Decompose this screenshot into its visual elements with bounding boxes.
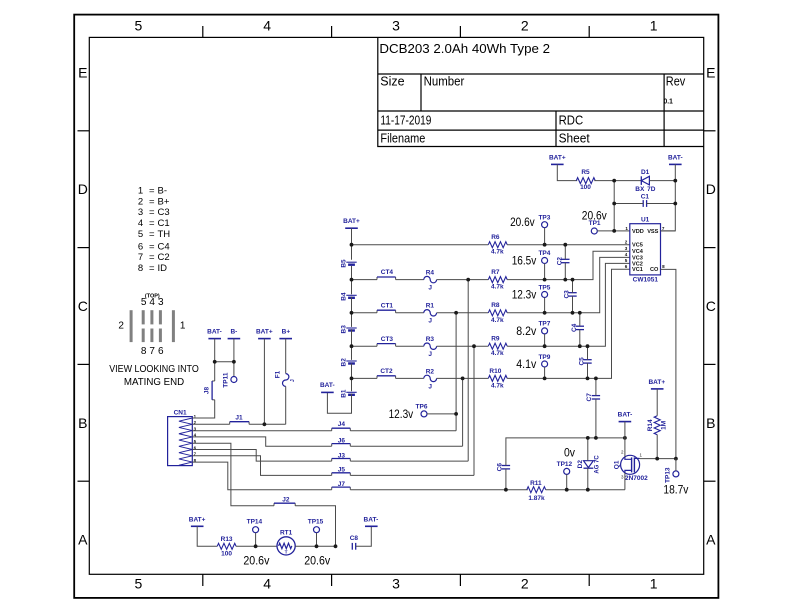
jumper J7	[332, 481, 351, 490]
wire J6 to 4.1v vertical	[350, 445, 462, 447]
test point TP11	[223, 372, 237, 388]
power flag BAT+ battery top	[343, 218, 360, 228]
wire BAT+ to R5	[557, 164, 577, 180]
jumper J1	[230, 415, 249, 425]
svg-text:=: =	[149, 263, 155, 274]
resistor R5 100	[576, 169, 595, 191]
wire C4 top	[579, 313, 581, 326]
svg-text:R8: R8	[491, 302, 500, 309]
svg-text:0.1: 0.1	[664, 99, 673, 106]
wire rail 8.2v to U1 VC2 pin 5	[507, 263, 630, 346]
test point TP12 0v	[557, 447, 576, 474]
svg-text:4: 4	[263, 18, 271, 34]
test point TP14 20.6v	[243, 519, 269, 568]
svg-text:100: 100	[580, 184, 591, 191]
wire CO pin 8 to Q1 gate node	[661, 269, 676, 458]
svg-text:4: 4	[138, 218, 143, 229]
resistor R11 1.87k	[527, 480, 546, 502]
wire rail 4.1v to U1 VC1 pin 6	[507, 269, 630, 378]
svg-text:TP9: TP9	[538, 354, 550, 361]
wire F1 to pin2 wire	[285, 386, 287, 424]
wire C2 bottom	[564, 263, 566, 280]
svg-text:Size: Size	[380, 75, 404, 89]
resistor R13 100	[217, 536, 236, 558]
wire J1 to B+ corner	[249, 423, 286, 425]
wire R5 to D1 node	[594, 180, 641, 182]
capacitor C6	[497, 463, 510, 472]
svg-text:TP3: TP3	[538, 215, 550, 222]
wire CN1 pin 7 to J5	[192, 456, 331, 476]
thermistor RT1	[277, 529, 295, 555]
svg-text:TP11: TP11	[223, 372, 230, 388]
svg-text:C2: C2	[158, 252, 170, 263]
test point TP15 20.6v	[304, 519, 330, 568]
svg-text:=: =	[149, 207, 155, 218]
test point TP5 12.3v	[512, 284, 551, 301]
svg-text:C4: C4	[571, 323, 578, 332]
wire C5 top	[587, 346, 589, 360]
wire D2 bottom	[587, 468, 589, 490]
svg-text:F1: F1	[275, 370, 282, 378]
svg-text:20.6v: 20.6v	[510, 217, 535, 229]
op-amp U1 CW1051 protection IC	[630, 217, 661, 284]
svg-text:5: 5	[138, 229, 143, 240]
wire B- stem to TP11	[233, 339, 235, 377]
svg-text:U1: U1	[641, 217, 650, 224]
svg-text:1: 1	[180, 321, 186, 332]
svg-text:=: =	[149, 218, 155, 229]
wire Q1 drain lead	[624, 438, 626, 457]
svg-text:J: J	[428, 383, 432, 390]
svg-text:TP6: TP6	[416, 403, 428, 410]
wire rail 12.3v to U1 VC3 pin 4	[507, 257, 630, 312]
svg-text:R5: R5	[581, 169, 590, 176]
power flag BAT+ at R14	[648, 379, 665, 389]
wire C4 bottom	[579, 330, 581, 347]
svg-text:E: E	[78, 65, 87, 81]
wire CT4 to R4	[396, 279, 424, 281]
wire VSS pin 7 stub	[661, 230, 676, 232]
svg-text:R14: R14	[647, 419, 654, 431]
svg-text:Sheet: Sheet	[559, 132, 591, 146]
wire 8.2v tap vertical to J5	[473, 346, 475, 475]
svg-text:CO: CO	[650, 267, 659, 273]
svg-text:RT1: RT1	[280, 529, 293, 536]
wire RT1 to TP15	[295, 545, 335, 547]
wire CN1 pin 4 to J6	[192, 437, 331, 446]
wire D1 to BAT- vertical	[649, 180, 675, 182]
svg-text:MATING END: MATING END	[124, 376, 185, 388]
svg-text:20.6v: 20.6v	[243, 556, 269, 568]
border zone labels	[78, 18, 716, 592]
jumper J8	[203, 381, 214, 400]
svg-text:1: 1	[650, 18, 658, 34]
capacitor C3	[564, 290, 577, 299]
wire C3 top	[572, 280, 574, 293]
svg-text:VC5: VC5	[632, 243, 643, 249]
wire J2 to RT1 node	[295, 506, 335, 547]
svg-text:BAT+: BAT+	[256, 329, 273, 336]
svg-text:VDD: VDD	[632, 229, 644, 235]
svg-text:2: 2	[521, 18, 529, 34]
wire BAT- flag to drain node	[624, 422, 626, 438]
junction dots rail taps	[350, 243, 598, 416]
resistor R7 4.7k	[488, 269, 507, 291]
svg-text:1: 1	[650, 576, 658, 592]
svg-text:C2: C2	[557, 257, 564, 266]
svg-text:B3: B3	[340, 325, 347, 334]
wire CT2 to R2	[396, 377, 424, 379]
wire TP4 stub	[544, 264, 546, 280]
wire rail 12.3v left	[352, 312, 378, 314]
wire rail 8.2v left	[352, 345, 378, 347]
jumper J3	[332, 452, 351, 461]
test point TP9 4.1v	[516, 354, 550, 371]
wire C5 bottom	[587, 363, 589, 378]
svg-text:=: =	[149, 229, 155, 240]
svg-text:12.3v: 12.3v	[512, 290, 537, 302]
svg-text:J3: J3	[338, 452, 346, 459]
svg-text:4.7k: 4.7k	[491, 317, 504, 324]
svg-text:J: J	[428, 285, 432, 292]
svg-text:1M: 1M	[660, 421, 667, 430]
svg-text:B: B	[706, 415, 715, 431]
test point TP7 8.2v	[516, 321, 550, 338]
svg-text:4.7k: 4.7k	[491, 382, 504, 389]
svg-text:BAT-: BAT-	[618, 411, 633, 418]
svg-text:TP12: TP12	[557, 461, 573, 468]
svg-text:12.3v: 12.3v	[389, 409, 414, 421]
svg-text:TP4: TP4	[538, 250, 550, 257]
svg-text:5: 5	[141, 297, 147, 308]
wire R2 to R10	[437, 377, 489, 379]
svg-text:7: 7	[662, 226, 665, 231]
svg-text:BAT-: BAT-	[364, 516, 379, 523]
connector CN1	[168, 410, 197, 466]
resistor R9 4.7k	[488, 336, 507, 358]
wire R13 to RT1	[236, 545, 277, 547]
battery cell B4	[340, 292, 356, 301]
wire TP9 stub	[544, 367, 546, 378]
svg-text:R9: R9	[491, 336, 500, 343]
power flag BAT- thermistor	[364, 516, 379, 526]
svg-text:J: J	[290, 379, 296, 382]
svg-text:R7: R7	[491, 269, 500, 276]
jumper J2	[274, 497, 295, 506]
svg-text:3: 3	[392, 576, 400, 592]
svg-text:T: T	[285, 550, 288, 556]
svg-text:BAT-: BAT-	[207, 329, 222, 336]
power flag B-	[228, 329, 241, 339]
wire rail 16.5v left	[352, 279, 378, 281]
svg-text:20.6v: 20.6v	[304, 556, 330, 568]
power flag BAT+ pin2	[256, 329, 273, 339]
svg-text:1: 1	[138, 186, 143, 197]
transistor Q1 2N7002	[614, 449, 649, 482]
capacitor C4	[571, 323, 584, 332]
svg-text:2: 2	[521, 576, 529, 592]
wire TP1 to VDD	[597, 230, 614, 232]
wire J5 to 8.2v vertical	[350, 474, 474, 476]
power flag BAT+ top right	[549, 154, 566, 164]
wire C7 bottom	[595, 399, 597, 438]
svg-text:AG 7C: AG 7C	[594, 455, 600, 474]
svg-text:4.7k: 4.7k	[491, 284, 504, 291]
wire B1 bottom to BAT- flag	[327, 392, 351, 413]
test point TP13 18.7v	[663, 467, 688, 497]
fuse R2 J	[424, 368, 437, 390]
wire C3 bottom	[572, 296, 574, 313]
wire C8 to BAT-	[356, 526, 372, 546]
wire R11 to Q1 source	[546, 489, 625, 491]
wire 4.1v tap vertical to J6	[462, 378, 464, 446]
capacitor C1	[641, 193, 650, 207]
wire BAT+ stem to pin2 wire	[263, 339, 265, 425]
wire rail 4.1v left	[352, 377, 378, 379]
svg-text:J7: J7	[338, 481, 346, 488]
svg-text:6: 6	[625, 264, 628, 269]
svg-text:DCB203 2.0Ah 40Wh Type 2: DCB203 2.0Ah 40Wh Type 2	[379, 42, 550, 56]
power flag BAT+ thermistor	[189, 516, 206, 526]
wire BAT- stem	[214, 339, 216, 381]
test point TP4 16.5v	[512, 250, 551, 267]
wire C2 top	[564, 245, 566, 260]
wire BAT+ to R14	[656, 389, 658, 416]
capacitor C5	[579, 357, 592, 366]
svg-text:C5: C5	[579, 357, 586, 366]
wire CN1 pin 5 to J2	[192, 443, 274, 506]
wire CN1 pin 3 to J4	[192, 430, 331, 432]
svg-text:CN1: CN1	[174, 410, 187, 417]
svg-text:3: 3	[392, 18, 400, 34]
test point TP1 20.6v	[582, 210, 607, 234]
svg-text:6: 6	[158, 346, 164, 357]
svg-text:4.7k: 4.7k	[491, 249, 504, 256]
svg-text:4.7k: 4.7k	[491, 350, 504, 357]
svg-text:1: 1	[625, 226, 628, 231]
jumper CT2	[377, 368, 396, 378]
power flag BAT- battery bottom	[320, 382, 335, 392]
svg-text:D2: D2	[577, 460, 584, 469]
svg-text:5: 5	[625, 258, 628, 263]
svg-text:20.6v: 20.6v	[582, 210, 607, 222]
svg-text:B5: B5	[340, 259, 347, 268]
svg-text:J1: J1	[235, 415, 243, 422]
svg-text:0v: 0v	[564, 447, 575, 459]
junction dots thermistor branch	[254, 544, 338, 548]
wire TP15 stub	[316, 533, 318, 547]
svg-text:R10: R10	[489, 368, 501, 375]
svg-text:8: 8	[138, 263, 143, 274]
test point TP3 20.6v	[510, 215, 551, 229]
svg-text:C: C	[706, 298, 716, 314]
svg-text:=: =	[149, 186, 155, 197]
svg-text:VIEW LOOKING INTO: VIEW LOOKING INTO	[109, 363, 199, 375]
svg-text:B4: B4	[340, 292, 347, 301]
power flag BAT- top right	[668, 154, 683, 164]
svg-text:C1: C1	[641, 193, 650, 200]
svg-text:4.1v: 4.1v	[516, 359, 536, 371]
jumper CT3	[377, 336, 396, 346]
svg-text:B-: B-	[230, 329, 237, 336]
wire VDD node vertical	[613, 181, 615, 231]
wire J8 to CN1 pin 1	[192, 400, 214, 418]
diode D1 BX 7D	[635, 169, 655, 193]
zener diode D2 AG 7C	[577, 455, 600, 474]
svg-text:R6: R6	[491, 234, 500, 241]
wire D2 top	[587, 438, 589, 461]
wire B4 to B3	[351, 297, 353, 327]
wire R4 to R7	[437, 279, 489, 281]
svg-text:C8: C8	[350, 535, 359, 542]
svg-text:R13: R13	[221, 536, 233, 543]
border frame with zone ticks	[74, 15, 718, 598]
wire Q1 gate to TP13 corner	[640, 458, 676, 460]
svg-text:C3: C3	[158, 207, 170, 218]
svg-text:Number: Number	[424, 75, 465, 89]
svg-text:D1: D1	[641, 169, 650, 176]
wire TP13 stub	[675, 459, 677, 471]
battery cell B3	[340, 325, 356, 334]
svg-text:8: 8	[141, 346, 147, 357]
svg-text:4: 4	[263, 576, 271, 592]
svg-text:8: 8	[662, 264, 665, 269]
svg-text:TP7: TP7	[538, 321, 550, 328]
svg-text:CT4: CT4	[381, 269, 394, 276]
svg-text:4: 4	[625, 252, 628, 257]
wire C1 left	[614, 203, 643, 205]
svg-text:C3: C3	[564, 290, 571, 299]
svg-text:A: A	[78, 532, 88, 548]
wire B+ stem to F1	[285, 339, 287, 374]
svg-text:B+: B+	[282, 329, 291, 336]
title block text	[379, 42, 686, 146]
jumper CT4	[377, 269, 396, 279]
wire rail 16.5v to U1 VC4 pin 3	[507, 251, 630, 279]
wire TP5 stub	[544, 298, 546, 313]
svg-text:BAT+: BAT+	[648, 379, 665, 386]
svg-text:J6: J6	[338, 437, 346, 444]
svg-text:C7: C7	[586, 393, 593, 402]
jumper J6	[332, 437, 351, 446]
resistor R6 4.7k	[488, 234, 507, 256]
fuse R1 J	[424, 303, 437, 325]
svg-text:Q1: Q1	[614, 460, 621, 469]
junction dots gate node	[655, 457, 678, 461]
svg-text:J: J	[428, 351, 432, 358]
svg-text:D: D	[706, 181, 716, 197]
svg-text:BX: BX	[635, 186, 645, 193]
wire into VDD pin 1	[614, 230, 630, 232]
svg-text:2: 2	[625, 240, 628, 245]
wire TP6 stub	[427, 413, 456, 415]
wire R14 to gate node	[656, 435, 658, 459]
wire R3 to R9	[437, 345, 489, 347]
connector mating-end pin view	[118, 293, 186, 357]
svg-text:7: 7	[149, 346, 155, 357]
svg-text:VC4: VC4	[632, 249, 644, 255]
wire J3 to 16.5v vertical	[350, 460, 468, 462]
mating end caption	[109, 363, 199, 388]
svg-text:C6: C6	[497, 463, 504, 472]
svg-text:B-: B-	[158, 186, 168, 197]
svg-text:E: E	[706, 65, 715, 81]
svg-text:R2: R2	[426, 368, 435, 375]
svg-text:2: 2	[118, 321, 124, 332]
fuse R4 J	[424, 269, 437, 291]
svg-text:CW1051: CW1051	[633, 277, 659, 284]
svg-text:3: 3	[158, 297, 164, 308]
svg-text:VSS: VSS	[647, 229, 658, 235]
svg-text:CT2: CT2	[380, 368, 393, 375]
fuse F1	[275, 370, 296, 386]
svg-text:3: 3	[625, 246, 628, 251]
wire CT3 to R3	[396, 345, 424, 347]
wire TP3 stub	[544, 228, 546, 245]
svg-text:16.5v: 16.5v	[512, 256, 537, 268]
svg-text:J: J	[428, 318, 432, 325]
svg-text:2N7002: 2N7002	[625, 475, 648, 482]
svg-text:BAT+: BAT+	[343, 218, 360, 225]
capacitor C7	[586, 393, 600, 402]
svg-text:C1: C1	[158, 218, 170, 229]
wire 12.3v tap vertical to J4	[455, 313, 457, 431]
svg-text:CT3: CT3	[381, 336, 394, 343]
capacitor C8	[350, 535, 359, 550]
svg-text:C: C	[78, 298, 88, 314]
capacitor C2	[557, 257, 570, 266]
svg-text:B2: B2	[340, 358, 347, 367]
svg-text:7D: 7D	[647, 186, 656, 193]
svg-text:11-17-2019: 11-17-2019	[380, 113, 431, 127]
svg-text:J8: J8	[203, 387, 210, 395]
junction dots B- link	[213, 360, 236, 364]
svg-text:J4: J4	[338, 421, 346, 428]
svg-text:7: 7	[138, 252, 143, 263]
svg-text:B1: B1	[340, 389, 347, 398]
test point TP6 12.3v	[389, 403, 428, 421]
svg-text:TH: TH	[158, 229, 171, 240]
battery cell B2	[340, 358, 356, 367]
wire BAT+ to R13	[197, 526, 217, 546]
wire C7 top	[595, 378, 597, 395]
svg-text:TP15: TP15	[308, 519, 324, 526]
jumper J4	[332, 421, 351, 431]
wire Q1 source lead	[624, 473, 626, 490]
wire R1 to R8	[437, 312, 489, 314]
wire TP14 stub	[255, 533, 257, 547]
connector pin assignment list	[138, 186, 170, 274]
wire BAT- vertical to VSS	[661, 164, 676, 231]
title block grid	[378, 37, 704, 146]
wire TP7 stub	[544, 334, 546, 346]
svg-text:TP5: TP5	[538, 284, 550, 291]
wire C6 top to BAT- node	[506, 438, 588, 466]
svg-text:B: B	[78, 415, 87, 431]
fuse R3 J	[424, 336, 437, 358]
U1 pin numbers	[625, 226, 665, 269]
jumper J5	[332, 467, 351, 476]
svg-text:R1: R1	[426, 303, 435, 310]
wire B3 to B2	[351, 329, 353, 360]
svg-text:TP13: TP13	[665, 467, 672, 483]
svg-text:Rev: Rev	[666, 75, 686, 89]
power flag B+	[279, 329, 292, 339]
svg-text:VC1: VC1	[632, 267, 643, 273]
wire CN1 pin 8 to J7	[192, 462, 331, 490]
junction dot BAT+ on pin2 wire	[263, 422, 267, 426]
wire C6 bottom	[505, 469, 507, 490]
